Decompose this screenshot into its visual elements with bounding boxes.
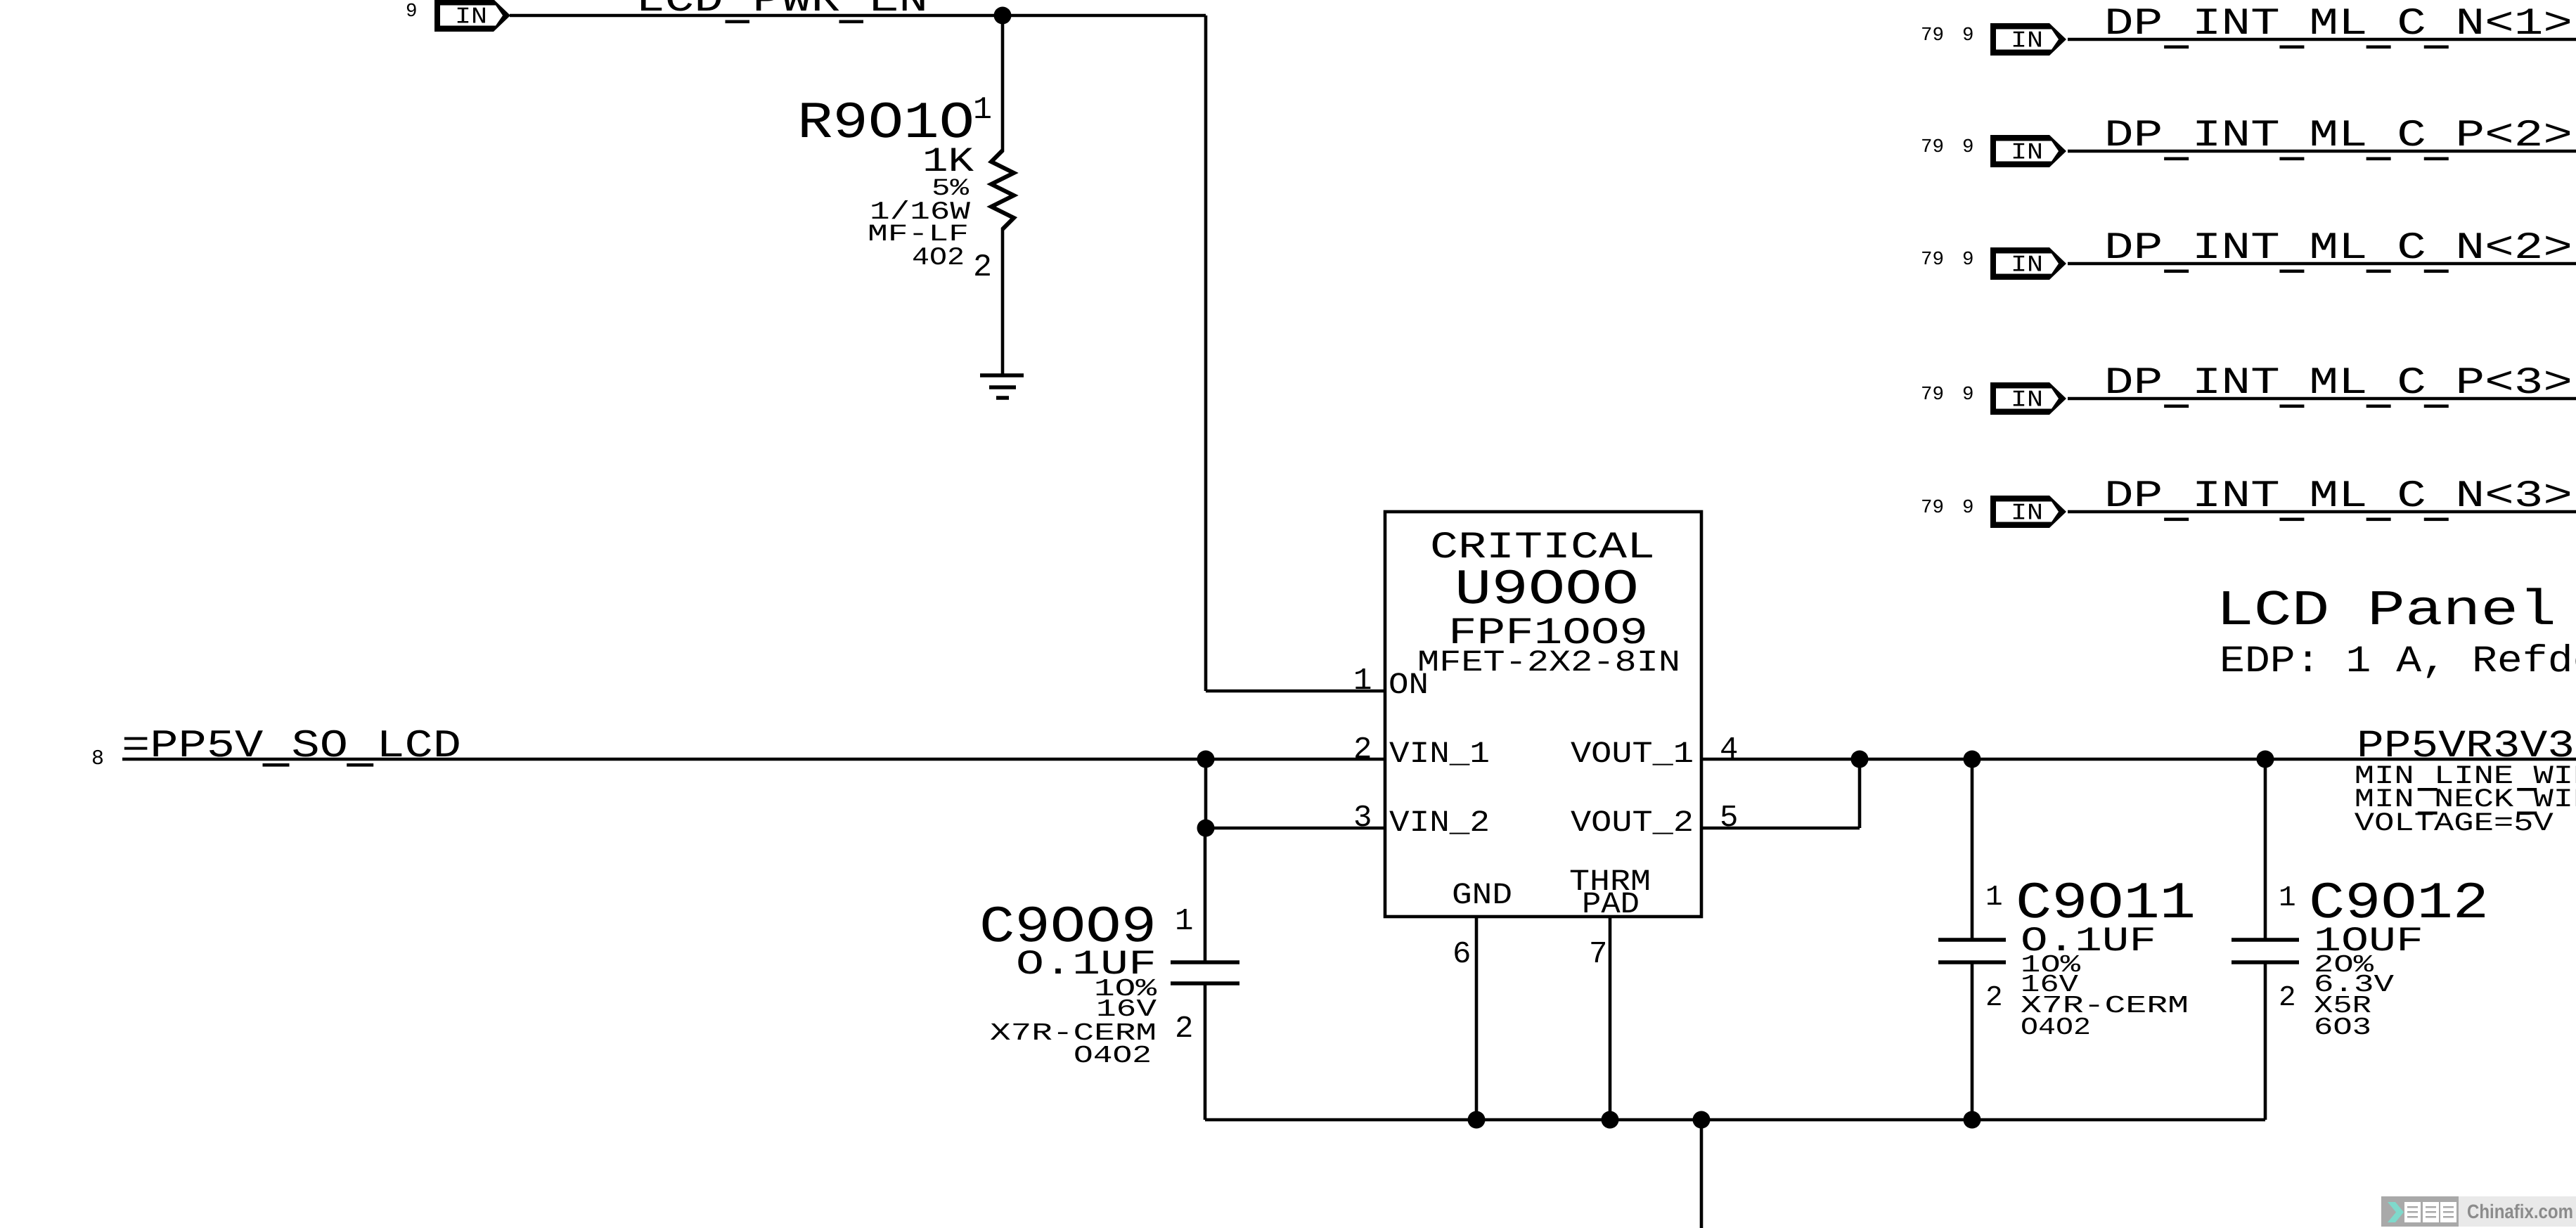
svg-text:6O3: 6O3 — [2314, 1014, 2371, 1042]
svg-text:1: 1 — [1175, 904, 1193, 939]
svg-text:DP INT ML C N<2>: DP INT ML C N<2> — [2104, 227, 2572, 270]
svg-text:79: 79 — [1921, 136, 1944, 158]
svg-text:6: 6 — [1453, 937, 1471, 972]
svg-text:VOUT_2: VOUT_2 — [1571, 806, 1694, 840]
svg-text:4O2: 4O2 — [912, 243, 965, 272]
svg-text:U9OOO: U9OOO — [1455, 562, 1639, 619]
svg-text:DP INT ML C P<3>: DP INT ML C P<3> — [2104, 362, 2572, 405]
svg-text:EDP: 1 A, Refdes: EDP: 1 A, Refdes — [2220, 640, 2576, 683]
svg-text:79: 79 — [1921, 497, 1944, 519]
svg-text:2: 2 — [973, 250, 992, 285]
svg-text:9: 9 — [406, 1, 418, 22]
svg-text:4: 4 — [1720, 732, 1738, 768]
svg-text:MFET-2X2-8IN: MFET-2X2-8IN — [1417, 645, 1680, 680]
svg-text:Chinafix.com: Chinafix.com — [2467, 1201, 2573, 1222]
svg-text:IN: IN — [455, 4, 487, 30]
svg-text:1: 1 — [2279, 882, 2296, 914]
svg-text:1: 1 — [1985, 881, 2003, 914]
svg-text:5: 5 — [1720, 801, 1738, 836]
svg-text:79: 79 — [1921, 249, 1944, 271]
svg-text:ON: ON — [1389, 668, 1429, 702]
svg-text:VIN_2: VIN_2 — [1389, 806, 1490, 840]
svg-text:PAD: PAD — [1582, 887, 1640, 922]
svg-text:IN: IN — [2011, 140, 2043, 166]
svg-text:IN: IN — [2011, 252, 2043, 278]
svg-text:9: 9 — [1962, 249, 1974, 271]
svg-text:DP INT ML C P<2>: DP INT ML C P<2> — [2104, 115, 2572, 157]
svg-text:=PP5V SO LCD: =PP5V SO LCD — [122, 724, 461, 768]
svg-text:DP INT ML C N<3>: DP INT ML C N<3> — [2104, 475, 2572, 518]
svg-text:3: 3 — [1353, 801, 1372, 836]
svg-text:9: 9 — [1962, 25, 1974, 46]
svg-text:IN: IN — [2011, 28, 2043, 54]
svg-text:9: 9 — [1962, 497, 1974, 519]
svg-text:IN: IN — [2011, 500, 2043, 526]
svg-text:9: 9 — [1962, 384, 1974, 406]
svg-text:2: 2 — [1353, 732, 1372, 768]
svg-text:2: 2 — [1175, 1012, 1193, 1047]
svg-text:O4O2: O4O2 — [1074, 1042, 1152, 1070]
svg-text:GND: GND — [1452, 878, 1512, 912]
svg-text:O4O2: O4O2 — [2021, 1014, 2091, 1042]
svg-text:LCD Panel: LCD Panel — [2216, 583, 2556, 640]
svg-text:LCD PWR EN: LCD PWR EN — [636, 0, 928, 22]
svg-text:IN: IN — [2011, 387, 2043, 413]
svg-text:8: 8 — [91, 747, 104, 771]
svg-text:79: 79 — [1921, 384, 1944, 406]
svg-text:2: 2 — [2279, 982, 2296, 1014]
svg-text:1: 1 — [973, 92, 992, 128]
svg-text:9: 9 — [1962, 136, 1974, 158]
svg-text:VOUT_1: VOUT_1 — [1571, 737, 1694, 771]
svg-text:2: 2 — [1985, 982, 2003, 1014]
svg-text:VIN_1: VIN_1 — [1389, 737, 1490, 771]
svg-text:DP INT ML C N<1>: DP INT ML C N<1> — [2104, 3, 2572, 46]
svg-text:1: 1 — [1353, 664, 1372, 699]
svg-text:79: 79 — [1921, 25, 1944, 46]
svg-text:7: 7 — [1589, 937, 1607, 972]
